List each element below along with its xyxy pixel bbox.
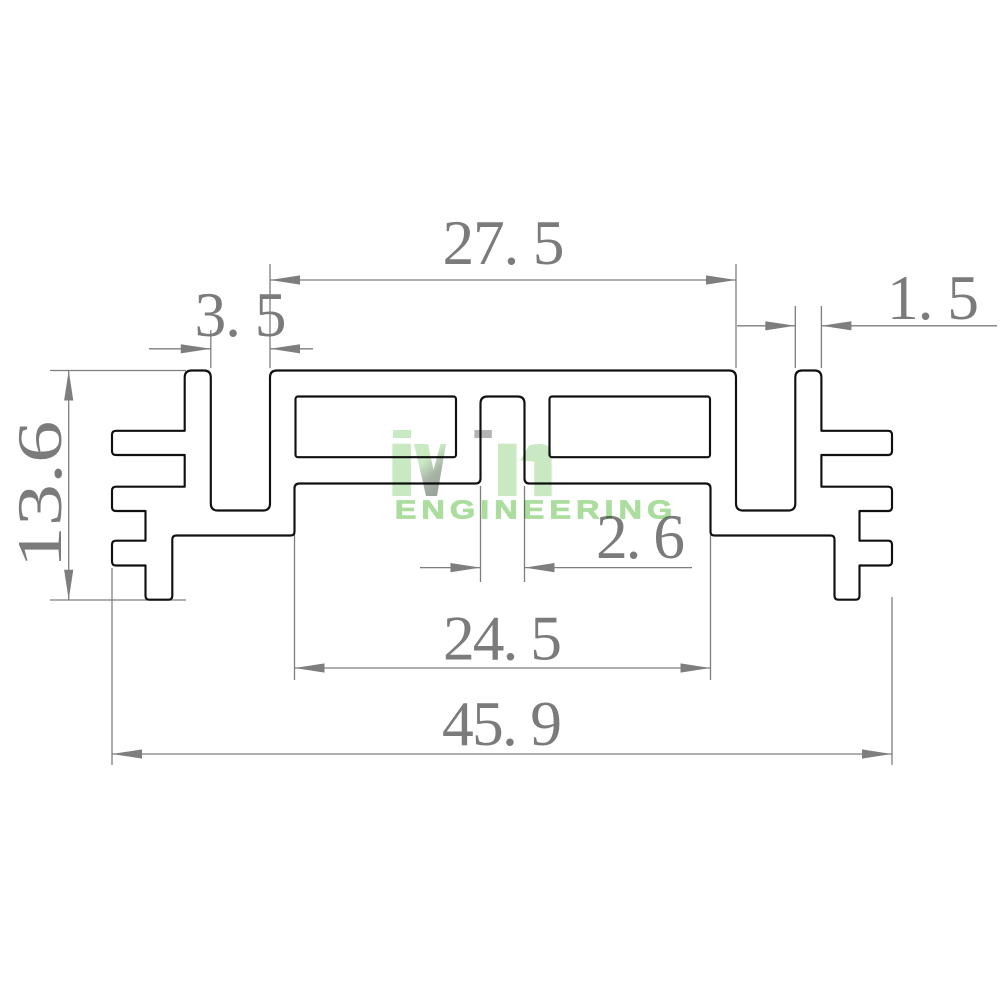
svg-text:ENGINEERING: ENGINEERING [395,496,673,525]
dimension line 45.9 [112,753,892,755]
cavity left (hollow chamber) [296,397,457,458]
extension lines 2.6 [481,486,525,582]
svg-text:24. 5: 24. 5 [443,603,562,674]
dimension line 27.5 [270,279,736,281]
svg-text:13.6: 13.6 [5,421,76,569]
dimension line 3.5 [149,348,313,350]
svg-text:1. 5: 1. 5 [887,262,979,333]
profile outline (aluminum extrusion section) [112,371,892,600]
extension line 3.5 left [210,330,212,368]
extension lines 27.5 [270,264,736,368]
dimension line 1.5 [737,325,997,327]
extension lines 45.9 [112,568,892,765]
svg-text:27. 5: 27. 5 [443,207,565,278]
dimension line 2.6 [420,567,692,569]
extension lines 1.5 [795,306,821,368]
watermark ivin logo [392,430,672,525]
svg-text:3. 5: 3. 5 [195,279,287,350]
dimension line 24.5 [295,667,711,669]
cavity right (hollow chamber) [550,397,711,458]
svg-text:45. 9: 45. 9 [442,688,562,759]
extension lines 24.5 [295,490,711,680]
extension lines 13.6 [50,371,186,601]
dimension line 13.6 [68,371,70,600]
